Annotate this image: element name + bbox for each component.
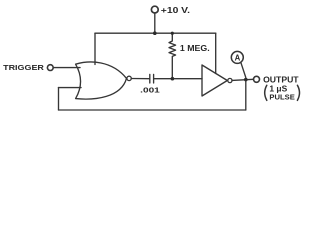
- wire feedback bottom rail: [59, 109, 246, 111]
- inverter output bubble: [228, 78, 232, 82]
- wire rail to inverter top: [215, 33, 217, 73]
- wire +10V drop: [154, 13, 156, 33]
- svg-text:TRIGGER: TRIGGER: [3, 63, 45, 72]
- wire capacitor to junction to inverter: [154, 78, 202, 80]
- capacitor C1 .001: [150, 74, 154, 83]
- svg-text:.001: .001: [140, 86, 160, 95]
- wire rail to gate top: [94, 33, 96, 64]
- pointer line A to junction: [241, 62, 246, 77]
- wire trigger to gate: [53, 67, 80, 69]
- wire inverter output to output terminal: [232, 79, 254, 80]
- svg-text:1 MEG.: 1 MEG.: [180, 44, 210, 53]
- right parenthesis: [297, 85, 299, 100]
- junction dot +10V rail: [153, 31, 157, 35]
- wire gate output to capacitor: [131, 78, 149, 80]
- wire feedback right drop: [245, 80, 247, 110]
- svg-text:+10 V.: +10 V.: [161, 6, 190, 15]
- wire top rail: [95, 32, 216, 34]
- NOR gate U1: [76, 62, 127, 99]
- terminal OUTPUT: [254, 76, 260, 82]
- inverter U2 triangle: [202, 65, 227, 96]
- svg-text:A: A: [235, 53, 241, 62]
- svg-text:PULSE: PULSE: [269, 92, 295, 101]
- waveform point A circle: [231, 51, 243, 63]
- junction dot capacitor resistor: [171, 77, 175, 81]
- NOR gate output bubble: [127, 76, 131, 80]
- resistor R1 1 MEG: [169, 33, 176, 78]
- wire feedback into gate: [59, 87, 82, 89]
- terminal TRIGGER: [47, 65, 53, 71]
- junction dot output feedback: [244, 78, 248, 82]
- junction dot resistor rail: [171, 32, 174, 35]
- wire feedback left rise: [58, 88, 60, 110]
- left parenthesis: [265, 85, 267, 100]
- terminal +10V: [151, 6, 158, 13]
